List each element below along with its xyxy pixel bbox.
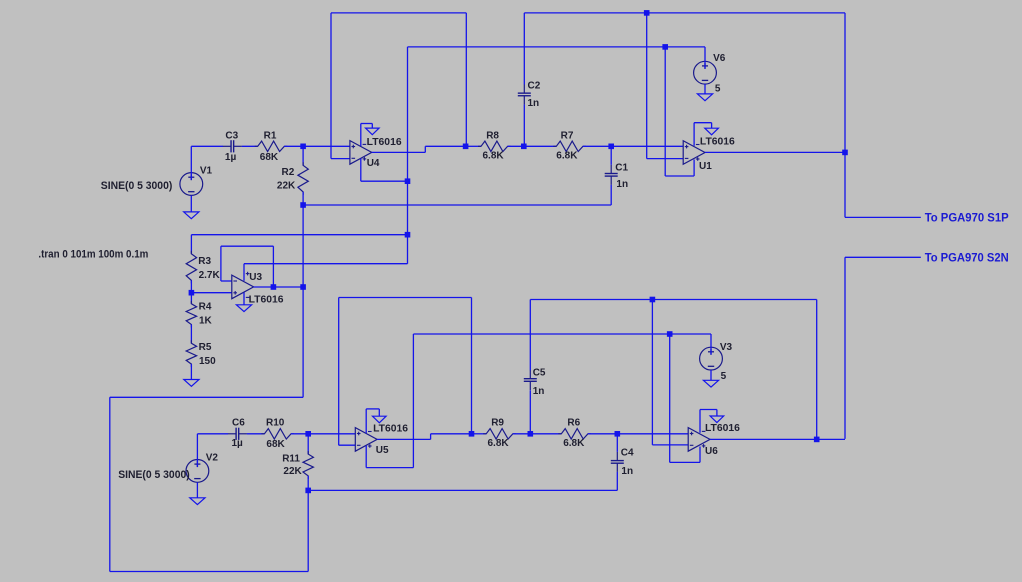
ground V6 xyxy=(697,94,712,101)
wire V1 to C3 xyxy=(191,145,223,147)
junction R1 R2 node xyxy=(300,144,306,150)
wire C3 to R1 xyxy=(242,145,258,147)
ground flag U5 xyxy=(373,416,387,423)
wire V2 to C6 xyxy=(197,433,228,435)
wire U1 output feedback top row xyxy=(524,12,845,14)
junction U1 output node xyxy=(842,150,848,156)
svg-text:LT6016: LT6016 xyxy=(367,137,402,148)
wire C6 to R10 xyxy=(247,433,265,435)
wire U6 V+ branch xyxy=(670,334,700,462)
svg-text:5: 5 xyxy=(715,84,721,95)
svg-text:U5: U5 xyxy=(376,445,389,456)
capacitor C3 xyxy=(223,140,242,152)
svg-text:R10: R10 xyxy=(266,418,285,429)
resistor R10 xyxy=(261,429,294,439)
junction R6 C4 node xyxy=(615,431,621,437)
wire U3 output node down to V2 loop xyxy=(302,287,304,397)
wire R6 to U6 non-inverting input xyxy=(617,433,688,435)
ground U3 xyxy=(236,305,251,312)
wire +5V rail bottom row xyxy=(413,333,711,335)
svg-text:U1: U1 xyxy=(699,161,712,172)
resistor R1 xyxy=(255,141,288,151)
wire U5 output xyxy=(377,434,471,440)
junction feedback row to U1 inverting input xyxy=(644,10,650,16)
capacitor C6 xyxy=(228,428,247,440)
wire R2 bottom down to U3 output xyxy=(302,205,304,287)
svg-text:R4: R4 xyxy=(199,302,212,313)
ground flag U1 xyxy=(705,128,719,135)
voltage source V6 xyxy=(694,47,717,94)
resistor R7 xyxy=(524,141,611,151)
resistor R2 xyxy=(298,146,308,205)
capacitor C4 xyxy=(611,434,624,491)
pin marks U1 power xyxy=(696,145,700,161)
wire R7 to U1 non-inverting input xyxy=(611,145,683,147)
svg-text:6.8K: 6.8K xyxy=(483,151,505,162)
ground V3 xyxy=(703,380,718,387)
svg-text:C6: C6 xyxy=(232,418,245,429)
wire R11 bottom to C4 bottom xyxy=(308,489,617,491)
svg-text:C2: C2 xyxy=(528,81,541,92)
wire U3 feedback loop xyxy=(221,246,274,287)
op-amp U6 xyxy=(688,428,710,452)
op-amp U5 xyxy=(355,428,377,452)
wire U4 feedback box right vertical xyxy=(465,13,467,146)
op-amp U1 xyxy=(683,141,705,165)
svg-text:6.8K: 6.8K xyxy=(488,438,510,449)
svg-text:R8: R8 xyxy=(486,130,499,141)
voltage source V2 xyxy=(186,434,209,498)
svg-text:R6: R6 xyxy=(567,417,580,428)
wire S2N vertical to U6 output xyxy=(844,257,846,439)
capacitor C5 xyxy=(524,300,537,434)
resistor R11 xyxy=(303,434,313,491)
svg-text:1n: 1n xyxy=(533,386,545,397)
wire feedback vertical to U1 inverting input xyxy=(647,13,684,159)
wire feedback right vertical to U6 output xyxy=(816,300,818,440)
wire to PGA970 S2N xyxy=(845,256,921,258)
wire U6 output xyxy=(710,438,845,440)
op-amp U4 xyxy=(350,141,372,165)
wire +5V rail left vertical xyxy=(407,47,409,264)
wire U1 output xyxy=(705,151,845,153)
wire U6 V- power pin xyxy=(700,410,717,433)
junction feedback row to U6 inverting input xyxy=(650,297,656,303)
wire U4 V+ power pin to +5V rail xyxy=(361,158,408,181)
svg-text:6.8K: 6.8K xyxy=(556,151,578,162)
junction U5 output R9 node xyxy=(469,431,475,437)
svg-text:1K: 1K xyxy=(199,315,213,326)
svg-text:U4: U4 xyxy=(367,158,380,169)
wire U5 V- power pin xyxy=(366,409,379,433)
pin marks U6 power xyxy=(702,431,706,447)
svg-text:6.8K: 6.8K xyxy=(563,438,585,449)
resistor R9 xyxy=(472,429,531,439)
wire U3 V- power pin xyxy=(243,293,245,305)
wire feedback vertical to U6 inverting input xyxy=(652,300,688,445)
svg-text:V2: V2 xyxy=(206,452,219,463)
wire U4 inverting input xyxy=(331,158,350,160)
wire U4 feedback box top xyxy=(331,12,466,14)
ground flag U4 xyxy=(366,128,380,135)
wire U5 V+ power pin xyxy=(366,334,413,468)
pin marks U5 power xyxy=(368,432,372,448)
junction U3 feedback output node xyxy=(271,284,277,290)
svg-text:U3: U3 xyxy=(249,272,262,283)
svg-text:LT6016: LT6016 xyxy=(705,423,740,434)
junction U6 output node xyxy=(814,437,820,443)
pin marks U3 power xyxy=(246,272,250,298)
wire V2 loop box bottom xyxy=(110,571,308,573)
svg-text:R1: R1 xyxy=(264,131,277,142)
svg-text:68K: 68K xyxy=(266,439,285,450)
wire U1 V- power pin xyxy=(694,123,712,146)
svg-text:C5: C5 xyxy=(533,368,546,379)
svg-text:LT6016: LT6016 xyxy=(373,424,408,435)
svg-text:1n: 1n xyxy=(528,98,540,109)
svg-text:To PGA970 S2N: To PGA970 S2N xyxy=(925,250,1009,264)
svg-text:R5: R5 xyxy=(199,342,212,353)
svg-text:V3: V3 xyxy=(720,342,733,353)
junction U4 V+ on +5V vertical xyxy=(405,178,411,184)
svg-text:1n: 1n xyxy=(616,179,628,190)
ground R5 xyxy=(184,380,199,387)
svg-text:To PGA970 S1P: To PGA970 S1P xyxy=(925,211,1009,225)
svg-text:V6: V6 xyxy=(713,53,726,64)
junction +5V rail to U6 V+ xyxy=(667,331,673,337)
wire V2 loop box left xyxy=(109,397,111,571)
ground V1 xyxy=(184,212,199,219)
wire U4 V- power pin xyxy=(361,124,373,147)
svg-text:.tran 0 101m 100m 0.1m: .tran 0 101m 100m 0.1m xyxy=(38,249,148,261)
op-amp U3 xyxy=(232,275,254,299)
junction U4 output R8 node xyxy=(463,144,469,150)
svg-text:C1: C1 xyxy=(615,162,628,173)
wire R1 to U4 non-inverting input xyxy=(284,145,350,147)
wire to PGA970 S1P xyxy=(845,216,921,218)
svg-text:22K: 22K xyxy=(283,466,302,477)
wire R10 to U5 non-inverting input xyxy=(291,433,355,435)
wire U4 feedback box left vertical xyxy=(330,13,332,159)
svg-text:22K: 22K xyxy=(277,181,296,192)
junction R2 bottom node xyxy=(300,202,306,208)
wire U6 feedback top row xyxy=(530,299,816,301)
wire U3 V+ power pin xyxy=(244,264,408,281)
resistor R3 xyxy=(186,235,196,293)
junction +5V rail to R3 row xyxy=(405,232,411,238)
svg-text:V1: V1 xyxy=(200,165,213,176)
wire +5V rail top row xyxy=(408,46,706,48)
svg-text:C4: C4 xyxy=(621,448,634,459)
resistor R8 xyxy=(466,141,524,151)
wire U1 output vertical to S1P xyxy=(844,13,846,218)
wire U1 V+ branch xyxy=(665,47,694,176)
resistor R5 xyxy=(186,340,196,379)
junction R9 R6 C5 node xyxy=(528,431,534,437)
wire R2 bottom to C1 bottom xyxy=(303,204,611,206)
svg-text:U6: U6 xyxy=(705,446,718,457)
svg-text:LT6016: LT6016 xyxy=(249,295,284,306)
junction R11 bottom node xyxy=(305,488,311,494)
voltage source V3 xyxy=(700,334,723,380)
wire U5 feedback box left vertical xyxy=(338,298,340,446)
svg-text:C3: C3 xyxy=(225,131,238,142)
pin marks U4 power xyxy=(363,144,367,160)
svg-text:SINE(0 5 3000): SINE(0 5 3000) xyxy=(101,180,173,192)
svg-text:1µ: 1µ xyxy=(232,438,244,449)
junction R3 R4 U3 node xyxy=(189,290,195,296)
capacitor C2 xyxy=(518,13,531,146)
ground flag U6 xyxy=(710,416,724,423)
junction R8 R7 C2 node xyxy=(521,144,527,150)
svg-text:R3: R3 xyxy=(198,256,211,267)
svg-text:R9: R9 xyxy=(491,417,504,428)
voltage source V1 xyxy=(180,146,203,212)
junction U3 output node xyxy=(300,284,306,290)
svg-text:R11: R11 xyxy=(282,454,300,465)
svg-text:2.7K: 2.7K xyxy=(199,270,221,281)
svg-text:SINE(0 5 3000): SINE(0 5 3000) xyxy=(118,469,190,481)
wire U3 inverting input xyxy=(221,280,232,282)
svg-text:150: 150 xyxy=(199,356,216,367)
ground V2 xyxy=(190,498,205,505)
svg-text:R2: R2 xyxy=(282,167,295,178)
junction +5V rail to U1 V+ xyxy=(662,44,668,50)
capacitor C1 xyxy=(605,146,618,205)
svg-text:R7: R7 xyxy=(561,130,574,141)
svg-text:1n: 1n xyxy=(621,466,633,477)
junction R7 C1 node xyxy=(608,144,614,150)
wire U4 output xyxy=(372,146,466,152)
svg-text:LT6016: LT6016 xyxy=(700,136,735,147)
resistor R6 xyxy=(530,429,617,439)
svg-text:5: 5 xyxy=(721,371,727,382)
wire V2 loop box top xyxy=(110,396,303,398)
wire U5 inverting input xyxy=(339,444,356,446)
wire R3 top row from +5V rail xyxy=(191,234,407,236)
svg-text:68K: 68K xyxy=(260,152,279,163)
svg-text:1µ: 1µ xyxy=(225,152,237,163)
junction R10 R11 node xyxy=(305,431,311,437)
wire U3 non-inverting input xyxy=(191,292,231,294)
wire U5 feedback box top xyxy=(339,297,472,299)
wire U3 output xyxy=(254,286,304,288)
wire V2 loop box right vertical xyxy=(307,490,309,571)
resistor R4 xyxy=(186,293,196,344)
wire U5 feedback box right vertical xyxy=(471,298,473,434)
